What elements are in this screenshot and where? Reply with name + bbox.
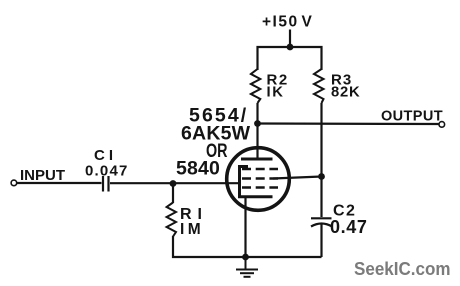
wire bottom bus xyxy=(246,256,322,258)
wire top bus xyxy=(258,47,322,70)
wire R2 bottom lead xyxy=(256,103,258,124)
svg-text:INPUT: INPUT xyxy=(20,167,65,184)
wire input lead xyxy=(17,182,102,184)
wire grid lead xyxy=(110,182,241,184)
ground xyxy=(236,257,258,277)
svg-text:IK: IK xyxy=(267,85,285,101)
svg-text:CI: CI xyxy=(94,147,117,164)
wire output line xyxy=(258,122,440,125)
tube V1 suppressor grid xyxy=(242,168,278,171)
wire R1 bottom lead xyxy=(173,236,246,257)
svg-text:SeekIC.com: SeekIC.com xyxy=(354,259,451,279)
resistor R2 xyxy=(251,69,260,103)
svg-text:+I50: +I50 xyxy=(262,14,299,31)
svg-text:0.047: 0.047 xyxy=(85,163,129,180)
wire R3 screen lead xyxy=(320,103,322,177)
tube V1 screen grid xyxy=(242,177,278,180)
tube V1 labels xyxy=(176,105,251,180)
tube V1 cathode xyxy=(240,167,273,197)
node cathode junction xyxy=(242,254,249,261)
terminal OUTPUT xyxy=(439,122,445,128)
tube V1 envelope xyxy=(227,148,290,211)
svg-text:82K: 82K xyxy=(331,85,361,101)
tube V1 control grid xyxy=(242,186,278,189)
svg-text:V: V xyxy=(302,14,313,31)
node screen junction xyxy=(318,173,325,180)
wire R1 top lead xyxy=(172,184,174,204)
tube V1 plate xyxy=(256,124,258,160)
terminal INPUT xyxy=(11,180,17,186)
wire cathode lead xyxy=(244,197,246,257)
node grid junction xyxy=(170,180,177,187)
wire screen grid lead xyxy=(273,177,322,179)
svg-text:OUTPUT: OUTPUT xyxy=(381,109,443,125)
node plate junction xyxy=(254,120,261,127)
wire supply lead xyxy=(289,30,291,48)
resistor R1 xyxy=(167,203,176,237)
capacitor C1 xyxy=(102,176,104,192)
svg-text:IM: IM xyxy=(180,221,204,238)
svg-text:0.47: 0.47 xyxy=(330,217,367,237)
node supply junction xyxy=(287,44,294,51)
resistor R3 xyxy=(314,69,324,103)
svg-text:5840: 5840 xyxy=(176,158,220,180)
capacitor C2 xyxy=(320,177,322,218)
